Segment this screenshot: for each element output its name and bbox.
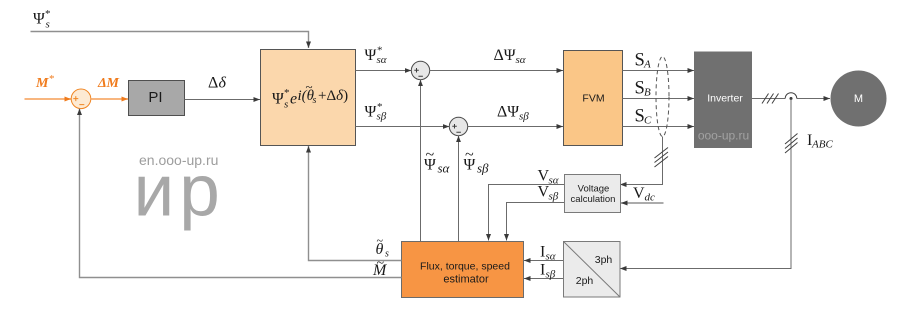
svg-text:sα: sα [377,54,387,66]
svg-text:FVM: FVM [582,93,604,105]
svg-text:ир: ир [134,151,225,232]
svg-text:sβ: sβ [546,269,556,281]
svg-text:e: e [290,91,297,108]
svg-text:A: A [643,59,651,71]
label S_A [635,51,652,71]
wire V_s_beta [507,203,565,241]
label psi~_s_alpha [424,147,451,176]
svg-text:Ψ: Ψ [365,104,377,121]
bundle grouping ellipse [656,57,669,137]
summing junction alpha [411,61,429,79]
svg-text:C: C [644,115,652,127]
label psi*_s_beta [365,101,387,123]
label I_ABC [807,132,833,151]
label V_s_beta [538,184,559,203]
block flux torque speed estimator [402,242,524,298]
wire S_C [623,126,695,128]
svg-text:*: * [284,87,290,99]
wire delta psi s beta [468,126,563,128]
svg-text:2ph: 2ph [576,275,594,287]
svg-text:calculation: calculation [571,194,616,205]
svg-text:dc: dc [645,192,656,204]
svg-text:Inverter: Inverter [707,93,743,105]
summing junction torque [71,89,91,109]
wire delta M [91,98,129,100]
svg-text:ΔΨ: ΔΨ [494,47,516,64]
slash marks on I_ABC wire [785,134,798,154]
wire delta-delta [185,99,261,101]
svg-text:sβ: sβ [549,191,559,203]
label V_dc [633,185,655,204]
svg-text:δ: δ [219,75,227,92]
label V_s_alpha [538,168,559,187]
wire S_A [623,70,695,72]
block PI [129,81,185,116]
svg-text:Flux, torque, speed: Flux, torque, speed [420,261,510,273]
svg-text:PI: PI [148,89,162,106]
svg-text:Voltage: Voltage [578,184,610,195]
wire S bundle to voltage calculation [620,137,663,185]
wire theta~ feedback into exp block bottom [309,146,402,261]
svg-text:ABC: ABC [811,139,833,151]
svg-text:Δ: Δ [208,75,218,92]
svg-text:V: V [633,185,645,202]
svg-text:sα: sα [438,161,451,176]
svg-text:s: s [46,19,50,31]
wire psi_s* reference into exp block top [31,32,309,49]
svg-text:sα: sα [549,175,559,187]
hop arc [785,93,797,99]
svg-text:sβ: sβ [377,111,387,123]
label delta psi s beta [497,104,529,123]
label delta M [97,76,120,91]
svg-text:~: ~ [377,256,385,271]
label I_s_alpha [540,244,556,263]
block 3ph 2ph [564,242,621,298]
wire psi~_s_alpha feedback up to alpha junction [420,80,422,242]
svg-text:M: M [35,76,49,91]
wire psi*_s_alpha [356,70,412,72]
block voltage calculation [565,175,621,213]
svg-text:+Δδ): +Δδ) [318,88,348,104]
svg-text:Ψ: Ψ [33,11,45,28]
wire psi*_s_beta [356,126,450,128]
motor M [831,71,887,127]
block FVM [564,51,623,146]
label psi~_s_beta [464,147,490,176]
svg-text:~: ~ [426,147,435,164]
wire V_dc [621,202,664,204]
label M* [35,73,55,91]
label I_s_beta [540,262,556,281]
wire V_s_alpha [489,185,565,241]
svg-text:estimator: estimator [443,274,489,286]
wire I_ABC down to 3ph2ph [620,99,791,269]
label S_C [635,107,653,127]
svg-text:M: M [106,76,120,91]
svg-text:*: * [49,73,55,85]
label psi*_s_alpha [365,45,387,67]
wire psi~_s_beta feedback up to beta junction [458,136,460,242]
svg-text:~: ~ [377,234,384,248]
wire M* torque reference [25,98,72,100]
svg-text:~: ~ [465,147,474,164]
label M~ [372,256,388,279]
svg-text:s: s [284,99,288,111]
svg-text:s: s [313,95,317,106]
wire I_s_beta [524,278,563,280]
wire I_s_alpha [524,260,563,262]
block inverter [694,52,752,149]
svg-text:3ph: 3ph [595,254,613,266]
wire S_B [623,98,695,100]
label delta-delta [208,75,227,92]
svg-text:~: ~ [306,79,313,94]
wire M~ feedback to torque junction [80,109,402,278]
svg-text:Δ: Δ [97,76,107,91]
svg-text:sβ: sβ [477,161,489,176]
label S_B [635,79,652,99]
node current tap [790,97,793,100]
svg-text:Ψ: Ψ [365,47,377,64]
label psi_s* [33,8,51,31]
block flux reference vector exp [261,50,356,146]
label delta psi s alpha [494,47,526,66]
wire inverter to motor with hop [752,98,830,100]
svg-text:B: B [644,87,651,99]
svg-text:sα: sα [546,251,556,263]
svg-text:ΔΨ: ΔΨ [497,104,519,121]
svg-text:sα: sα [516,54,526,66]
svg-text:sβ: sβ [519,111,529,123]
summing junction beta [449,117,467,135]
svg-text:Ψ: Ψ [272,91,284,108]
label theta~_s [376,234,390,260]
slash marks on S bundle [655,148,669,168]
wire delta psi s alpha [430,70,563,72]
svg-text:s: s [385,249,389,260]
svg-text:ooo-up.ru: ooo-up.ru [698,129,749,143]
slash marks on motor wire [762,94,779,104]
svg-text:M: M [854,93,863,105]
